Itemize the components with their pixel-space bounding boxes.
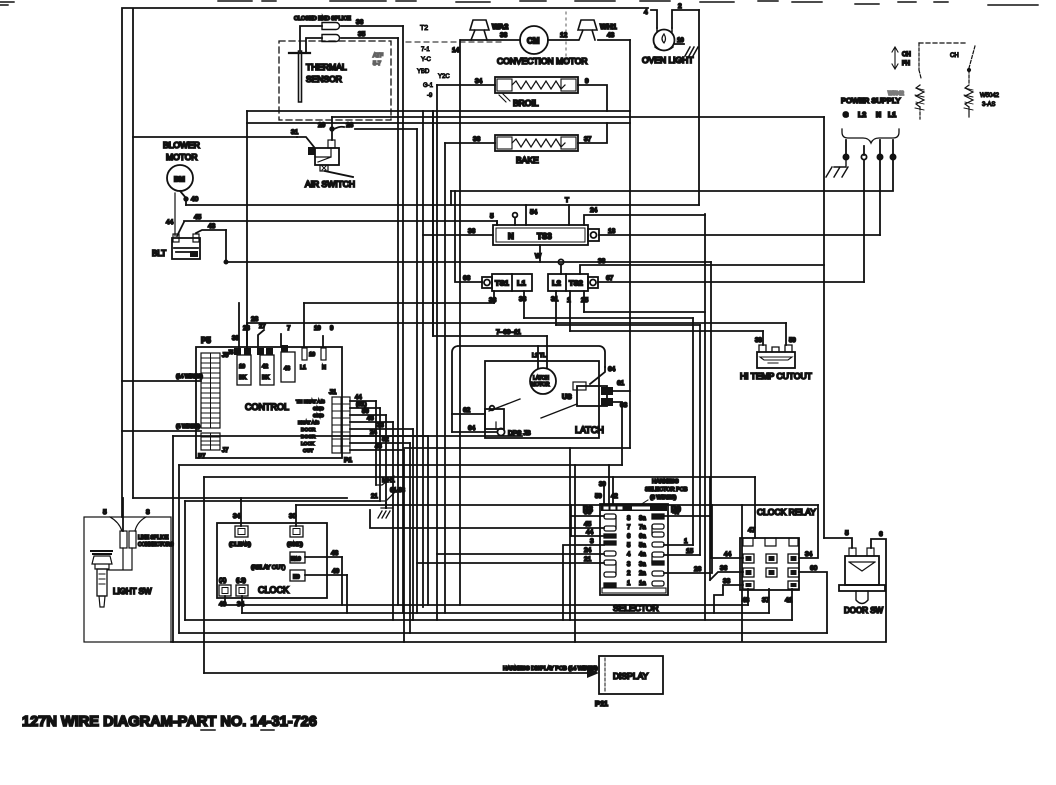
svg-text:6: 6 bbox=[879, 531, 883, 538]
wire: bus y303 bbox=[304, 302, 494, 304]
wire: vertical x575 bbox=[574, 465, 576, 642]
wire: vertical x226 bbox=[225, 230, 227, 262]
svg-text:THERMAL: THERMAL bbox=[306, 62, 347, 72]
svg-text:CONTROL: CONTROL bbox=[245, 402, 289, 412]
svg-text:4: 4 bbox=[627, 552, 631, 558]
wire: bus y465 bbox=[179, 464, 622, 466]
svg-text:5: 5 bbox=[845, 530, 849, 537]
wire: vertical x417 bbox=[416, 129, 418, 613]
svg-text:SELECTOR PCB: SELECTOR PCB bbox=[645, 487, 688, 493]
svg-text:28: 28 bbox=[251, 316, 259, 323]
wire: bottom bus y613 bbox=[242, 612, 769, 614]
svg-text:33: 33 bbox=[723, 578, 731, 585]
svg-text:BAKE: BAKE bbox=[516, 155, 539, 165]
svg-text:36: 36 bbox=[356, 19, 364, 26]
svg-text:64: 64 bbox=[608, 366, 616, 373]
wire: CSW 64 bottom bbox=[452, 425, 531, 437]
wire: L2TS2 top stub bbox=[560, 264, 562, 274]
svg-text:J1: J1 bbox=[329, 389, 337, 396]
latch board bbox=[485, 361, 604, 438]
svg-text:L2: L2 bbox=[858, 112, 866, 119]
svg-text:36: 36 bbox=[720, 565, 728, 572]
wire: splice feed x123 bbox=[122, 498, 124, 531]
svg-text:47: 47 bbox=[673, 509, 681, 516]
svg-text:G-1: G-1 bbox=[423, 83, 434, 89]
air switch bbox=[297, 117, 355, 189]
latch frame loop bbox=[452, 346, 605, 432]
wire: selector 15 bbox=[664, 548, 700, 555]
wire: bake leads bbox=[445, 123, 607, 143]
wire: vertical x423 bbox=[422, 111, 424, 607]
svg-text:TS2: TS2 bbox=[569, 279, 583, 288]
svg-text:BM: BM bbox=[174, 177, 185, 184]
wire: broil leads bbox=[437, 78, 607, 111]
harness scribble area bbox=[406, 25, 505, 99]
svg-text:(GND): (GND) bbox=[287, 542, 303, 548]
svg-text:34: 34 bbox=[805, 551, 813, 558]
svg-text:CONNECTORS: CONNECTORS bbox=[138, 542, 174, 548]
svg-text:53: 53 bbox=[584, 509, 592, 516]
wire: bus y331 bbox=[570, 330, 763, 332]
svg-text:9: 9 bbox=[585, 78, 589, 85]
svg-text:24: 24 bbox=[584, 547, 592, 554]
wire: cutout right lead bbox=[786, 323, 796, 345]
wire: L2 drop bbox=[863, 160, 865, 282]
selector pin numbers right bbox=[639, 516, 646, 587]
clock terminal E2 bbox=[219, 578, 231, 608]
wire: bus y262 bbox=[224, 259, 711, 264]
wire: display harness bbox=[204, 666, 599, 678]
terminal strip L2 TS2 bbox=[548, 274, 598, 291]
svg-text:27: 27 bbox=[259, 324, 266, 330]
line splice connectors bbox=[110, 517, 174, 570]
fuse F1 dashed bbox=[915, 43, 966, 119]
wire: relay pin48 bbox=[742, 589, 750, 605]
svg-text:61 63: 61 63 bbox=[390, 488, 406, 494]
svg-text:HI TEMP CUTOUT: HI TEMP CUTOUT bbox=[740, 371, 812, 381]
svg-text:(4 WIRES): (4 WIRES) bbox=[176, 424, 200, 430]
svg-text:2: 2 bbox=[627, 571, 631, 577]
svg-text:4: 4 bbox=[644, 9, 648, 16]
label relay out bbox=[251, 565, 285, 571]
switch MH1 bbox=[371, 476, 406, 508]
svg-text:L2: L2 bbox=[552, 279, 561, 288]
svg-text:LATCH: LATCH bbox=[575, 425, 604, 435]
wire: relay 36 in bbox=[710, 565, 743, 580]
svg-text:TH HEAT A/B: TH HEAT A/B bbox=[296, 399, 325, 405]
svg-text:CLOSED END SPLICE: CLOSED END SPLICE bbox=[294, 16, 351, 22]
wire: TS3 pin54 bbox=[526, 205, 538, 225]
wire: lamp feed 2 bbox=[672, 3, 699, 28]
bake element bbox=[495, 135, 578, 165]
svg-text:10: 10 bbox=[309, 352, 315, 358]
svg-text:4a: 4a bbox=[639, 552, 646, 558]
wire: P1 rows out bbox=[350, 395, 428, 450]
svg-text:7a: 7a bbox=[639, 525, 646, 531]
wire: BLT 44-45 line bbox=[166, 213, 497, 236]
svg-text:(L2): (L2) bbox=[236, 578, 246, 584]
wire: motor row bbox=[461, 32, 630, 40]
wire: TS3 pinT bbox=[565, 197, 569, 225]
wire: selector lead 21 bbox=[417, 556, 604, 563]
wire: TS2 pin1 bbox=[567, 291, 571, 331]
svg-text:43: 43 bbox=[208, 223, 216, 230]
latch switch CSW bbox=[485, 399, 520, 429]
wire: vertical x445 bbox=[444, 143, 446, 613]
svg-text:HEAT A/B: HEAT A/B bbox=[298, 420, 319, 426]
wire: E10 drop bbox=[341, 557, 343, 605]
wire: vertical x179 bbox=[178, 465, 180, 633]
svg-text:43: 43 bbox=[284, 366, 290, 372]
svg-text:FH: FH bbox=[902, 61, 910, 67]
svg-text:N: N bbox=[876, 112, 881, 119]
wire: US 63 out bbox=[613, 402, 622, 465]
wire: relay 47 stub bbox=[748, 477, 756, 538]
svg-text:SENSOR: SENSOR bbox=[306, 74, 342, 84]
svg-text:60: 60 bbox=[810, 565, 818, 572]
svg-text:W5042: W5042 bbox=[980, 93, 1000, 99]
svg-text:2a: 2a bbox=[639, 571, 646, 577]
wire: vertical x433 bbox=[432, 111, 434, 336]
relay K1 on control bbox=[228, 348, 251, 385]
svg-text:2: 2 bbox=[678, 3, 682, 10]
wire: BLT 43 out bbox=[196, 223, 226, 233]
selector board bbox=[583, 504, 681, 613]
wire: bus y111 bbox=[247, 110, 630, 112]
svg-text:J7: J7 bbox=[222, 448, 229, 454]
wire: selector lead 45 bbox=[370, 510, 604, 528]
svg-text:3a: 3a bbox=[639, 562, 646, 568]
wire: bus y325 bbox=[556, 324, 700, 326]
svg-text:BLOWER: BLOWER bbox=[163, 140, 200, 150]
wire: bus y206 bbox=[186, 204, 699, 206]
thermal sensor bbox=[279, 41, 391, 120]
svg-text:WA2: WA2 bbox=[492, 22, 508, 31]
svg-text:E9: E9 bbox=[293, 575, 300, 581]
svg-text:CH: CH bbox=[950, 53, 959, 59]
svg-text:T: T bbox=[565, 197, 569, 204]
wire: vertical x247 bbox=[246, 111, 248, 347]
svg-text:59: 59 bbox=[789, 338, 796, 344]
svg-text:3: 3 bbox=[590, 538, 594, 545]
svg-text:L1: L1 bbox=[888, 112, 896, 119]
svg-text:Y-C: Y-C bbox=[421, 57, 431, 63]
wire: vertical x711 bbox=[710, 262, 712, 558]
wire: TS2 38 top bbox=[580, 258, 824, 274]
latch switch US bbox=[541, 382, 607, 418]
wire: TS1 pin38 bbox=[519, 291, 527, 318]
harness selector label bbox=[640, 479, 688, 505]
oven light bbox=[642, 28, 693, 65]
selector left pins bbox=[604, 514, 616, 587]
svg-text:21: 21 bbox=[371, 494, 378, 500]
broil element bbox=[495, 77, 578, 108]
convection motor CM bbox=[497, 26, 588, 66]
wire: y203 corner bbox=[450, 191, 452, 205]
svg-text:7-1: 7-1 bbox=[421, 47, 430, 53]
wire: selector lead 53 bbox=[571, 505, 604, 536]
svg-text:47: 47 bbox=[748, 527, 756, 534]
svg-text:45: 45 bbox=[584, 521, 592, 528]
wire: bottom bus y605 bbox=[225, 604, 748, 606]
wire: air switch out 28 bbox=[334, 127, 417, 129]
svg-text:BLT: BLT bbox=[152, 249, 166, 258]
enclosure border bbox=[122, 8, 648, 517]
wire: selector lead 44 bbox=[571, 529, 604, 536]
svg-text:(6 WIRES): (6 WIRES) bbox=[650, 495, 676, 501]
svg-text:127N WIRE DIAGRAM-PART NO. 14-: 127N WIRE DIAGRAM-PART NO. 14-31-726 bbox=[22, 714, 317, 730]
wire: vertical x185 bbox=[184, 501, 186, 620]
svg-text:L2 TL: L2 TL bbox=[532, 353, 546, 359]
svg-text:T2: T2 bbox=[420, 25, 428, 32]
power supply bbox=[841, 91, 904, 160]
latch motor bbox=[530, 336, 556, 394]
wire: bottom bus y620 bbox=[185, 619, 792, 621]
svg-text:25: 25 bbox=[581, 297, 589, 304]
wire: bus y505 bbox=[296, 504, 818, 506]
wire: N drop bbox=[879, 160, 881, 235]
wire: vertical x630 bbox=[629, 40, 631, 448]
clock terminal F1 bbox=[236, 578, 248, 613]
wire: feed to air switch bbox=[133, 129, 299, 137]
svg-text:6a: 6a bbox=[639, 534, 646, 540]
wire: TS2 pin31 bbox=[551, 291, 559, 325]
svg-text:DISPLAY: DISPLAY bbox=[613, 671, 649, 681]
svg-text:J5: J5 bbox=[228, 350, 234, 356]
svg-text:7–69–11: 7–69–11 bbox=[496, 329, 521, 336]
svg-text:1: 1 bbox=[567, 297, 571, 304]
wire: TS1 pin36 bbox=[489, 291, 497, 304]
svg-text:7: 7 bbox=[627, 525, 631, 531]
svg-text:P5: P5 bbox=[201, 336, 211, 345]
svg-text:CLOCK: CLOCK bbox=[258, 585, 289, 595]
wire: vertical x460 bbox=[452, 40, 460, 605]
svg-text:POWER SUPPLY: POWER SUPPLY bbox=[841, 96, 900, 105]
svg-text:E10: E10 bbox=[291, 557, 301, 563]
wire: relay 33 in bbox=[714, 578, 743, 613]
svg-text:1: 1 bbox=[627, 581, 631, 587]
svg-text:37: 37 bbox=[584, 136, 592, 143]
ground: MH1 bbox=[378, 508, 392, 518]
fuse arrows CH FH bbox=[892, 47, 911, 69]
svg-text:BROIL: BROIL bbox=[513, 98, 539, 108]
wire: selector 1 bbox=[664, 538, 693, 545]
svg-text:59: 59 bbox=[595, 494, 602, 500]
wire: P5 left feeds bbox=[122, 374, 203, 431]
svg-text:N: N bbox=[508, 232, 514, 241]
svg-text:50: 50 bbox=[362, 409, 369, 415]
svg-text:G: G bbox=[843, 112, 849, 119]
wire: TS3 left 36 bbox=[423, 228, 493, 235]
svg-text:L1: L1 bbox=[300, 365, 306, 371]
svg-text:LIGHT SW: LIGHT SW bbox=[113, 587, 152, 596]
wire: L1 drop bbox=[451, 160, 893, 191]
svg-text:(RELAY OUT): (RELAY OUT) bbox=[251, 565, 285, 571]
svg-text:P1: P1 bbox=[344, 457, 352, 464]
wire: selector lead 24 bbox=[437, 547, 604, 554]
clock terminal E10 bbox=[290, 550, 342, 563]
wire: relay pin37 bbox=[762, 589, 770, 613]
wire: vertical x693 bbox=[692, 318, 694, 545]
wire: vertical x700 bbox=[699, 325, 701, 555]
title bbox=[22, 714, 317, 730]
wire: vertical x570 bbox=[569, 448, 571, 620]
buzzer WH1 bbox=[578, 20, 617, 40]
scan fold mark bbox=[565, 12, 567, 64]
svg-text:5: 5 bbox=[103, 509, 107, 516]
svg-text:29: 29 bbox=[318, 122, 326, 129]
relay BLT bbox=[152, 234, 200, 259]
wire: splice left leads bbox=[300, 26, 322, 53]
wire: selector 26 bbox=[664, 505, 712, 573]
hi temp cutout bbox=[740, 345, 812, 381]
connector P5 ladder bbox=[201, 353, 220, 428]
wire: vertical x699 bbox=[698, 10, 700, 205]
svg-text:36: 36 bbox=[473, 136, 481, 143]
terminal: US 61 bbox=[601, 380, 625, 395]
svg-text:36: 36 bbox=[468, 228, 476, 235]
svg-text:38: 38 bbox=[500, 32, 508, 39]
svg-text:66: 66 bbox=[463, 275, 471, 282]
svg-text:(X): (X) bbox=[219, 578, 227, 584]
svg-text:GND: GND bbox=[313, 413, 324, 419]
wire: US 61 out bbox=[613, 390, 630, 392]
svg-text:HARNESS DISPLAY PCB (14 WIRES): HARNESS DISPLAY PCB (14 WIRES) bbox=[503, 666, 598, 672]
svg-text:15: 15 bbox=[686, 548, 694, 555]
svg-text:35: 35 bbox=[358, 31, 366, 38]
svg-text:38: 38 bbox=[755, 338, 762, 344]
terminal strip TS1 L1 bbox=[482, 274, 532, 291]
wire: lamp feed 4 bbox=[644, 9, 657, 28]
wire: TS3 24 branch bbox=[584, 207, 705, 225]
svg-text:DOOR: DOOR bbox=[301, 427, 316, 433]
P1 row labels bbox=[296, 399, 325, 454]
latch motor feed 7-69-11 bbox=[433, 111, 547, 336]
ground: power supply bbox=[826, 160, 848, 177]
connector J7 ladder bbox=[201, 433, 220, 450]
wire: vertical x824 bbox=[823, 117, 825, 538]
closed end splice bbox=[294, 16, 351, 42]
wire: relay 34 out bbox=[799, 505, 818, 558]
wire: vertical bus x403 bbox=[402, 26, 404, 613]
scan noise top edge bbox=[0, 1, 1038, 5]
svg-text:LOCK: LOCK bbox=[301, 441, 315, 447]
svg-text:38: 38 bbox=[519, 296, 527, 303]
svg-text:CLOCK RELAY: CLOCK RELAY bbox=[757, 507, 816, 517]
wire: control top stubs bbox=[232, 303, 334, 347]
wire: bus y436 bbox=[173, 435, 522, 437]
svg-text:6: 6 bbox=[627, 534, 631, 540]
svg-text:8: 8 bbox=[146, 509, 150, 516]
clock board bbox=[217, 523, 327, 598]
wire: cutout left lead bbox=[755, 331, 763, 345]
svg-text:1a: 1a bbox=[639, 581, 646, 587]
svg-text:48: 48 bbox=[742, 597, 750, 604]
svg-text:49: 49 bbox=[332, 568, 340, 575]
svg-text:DOOR SW: DOOR SW bbox=[844, 606, 884, 615]
svg-text:DOOR: DOOR bbox=[301, 434, 316, 440]
svg-text:ATF: ATF bbox=[373, 53, 384, 59]
svg-text:10: 10 bbox=[239, 364, 245, 370]
fuse F2 bbox=[950, 46, 1000, 117]
svg-text:GND: GND bbox=[313, 406, 324, 412]
svg-text:62: 62 bbox=[463, 407, 471, 414]
svg-text:5: 5 bbox=[627, 543, 631, 549]
svg-text:31: 31 bbox=[291, 129, 299, 136]
svg-text:34: 34 bbox=[233, 513, 241, 520]
wire: TS3 circle pin bbox=[513, 213, 518, 225]
svg-text:AIR SWITCH: AIR SWITCH bbox=[305, 179, 355, 189]
svg-text:3-AS: 3-AS bbox=[982, 102, 995, 108]
svg-text:Y2C: Y2C bbox=[438, 74, 450, 80]
svg-text:-9: -9 bbox=[427, 93, 433, 99]
wire: E9 drop bbox=[346, 575, 348, 613]
control board bbox=[196, 336, 342, 460]
wire: TS2 pin25 bbox=[581, 291, 589, 312]
svg-text:9: 9 bbox=[330, 326, 334, 332]
wire: selector top stubs bbox=[595, 465, 618, 504]
wire: splice outputs bbox=[341, 19, 403, 38]
ground: oven light bbox=[685, 47, 698, 56]
wire: CSW 62 bbox=[452, 407, 485, 414]
svg-text:44: 44 bbox=[724, 551, 732, 558]
svg-text:CM: CM bbox=[527, 37, 540, 46]
svg-text:45: 45 bbox=[194, 214, 202, 221]
svg-text:61: 61 bbox=[617, 380, 625, 387]
wire: bus y498 bbox=[133, 497, 347, 499]
door switch bbox=[839, 548, 885, 615]
svg-text:44: 44 bbox=[166, 219, 174, 226]
clock terminal E4 bbox=[229, 498, 251, 548]
svg-text:19: 19 bbox=[314, 326, 321, 332]
svg-text:28: 28 bbox=[346, 122, 354, 129]
wire: bus y448 bbox=[404, 447, 630, 449]
svg-text:W5042: W5042 bbox=[888, 91, 904, 97]
svg-text:LATCH: LATCH bbox=[533, 376, 549, 382]
wire: relay 44 in bbox=[711, 551, 743, 558]
svg-text:(51): (51) bbox=[356, 402, 367, 408]
wire: relay 60 out bbox=[799, 565, 827, 633]
svg-text:CONVECTION MOTOR: CONVECTION MOTOR bbox=[497, 56, 588, 66]
clock terminal GND bbox=[287, 505, 303, 548]
svg-text:31: 31 bbox=[551, 296, 559, 303]
wire: TS3 right to N bbox=[599, 228, 880, 235]
clock relay bbox=[740, 507, 816, 590]
light switch bbox=[91, 551, 152, 607]
wire: selector lead 3 bbox=[563, 538, 604, 620]
svg-text:8a: 8a bbox=[639, 516, 646, 522]
selector pin numbers left bbox=[627, 516, 631, 587]
wire: bus y477 bbox=[204, 476, 755, 478]
light switch enclosure bbox=[84, 509, 171, 642]
svg-text:MOTOR: MOTOR bbox=[166, 152, 197, 162]
wire: vertical x705 bbox=[704, 214, 706, 620]
wire: bus y327 cutout feed bbox=[247, 316, 786, 323]
display board bbox=[595, 656, 663, 708]
wire: bus y117 bbox=[332, 116, 824, 118]
svg-text:W: W bbox=[535, 253, 542, 260]
buzzer WA2 bbox=[470, 20, 508, 40]
wire: relay pin41 bbox=[785, 589, 793, 620]
clock relay terminals bbox=[743, 554, 799, 589]
wire: bus y501 bbox=[185, 500, 380, 502]
svg-text:TS1: TS1 bbox=[495, 279, 509, 288]
svg-text:14: 14 bbox=[452, 47, 460, 54]
svg-text:5: 5 bbox=[490, 213, 494, 220]
terminal: US 63 bbox=[601, 398, 628, 409]
wire: bus y318 bbox=[524, 317, 693, 319]
wire: control 28 stub bbox=[246, 323, 248, 347]
